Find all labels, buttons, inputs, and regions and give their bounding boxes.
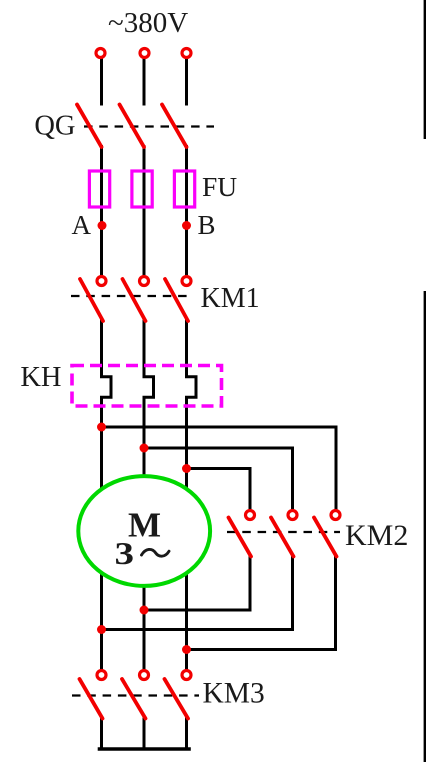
svg-text:KH: KH [20, 362, 61, 393]
svg-text:KM2: KM2 [345, 519, 408, 552]
svg-text:KM3: KM3 [203, 678, 265, 710]
svg-text:B: B [198, 210, 216, 240]
svg-text:A: A [72, 210, 92, 240]
svg-text:FU: FU [202, 171, 237, 202]
svg-text:~380V: ~380V [108, 7, 188, 39]
svg-text:QG: QG [34, 111, 75, 142]
svg-text:KM1: KM1 [201, 283, 260, 314]
svg-text:3: 3 [115, 535, 135, 571]
